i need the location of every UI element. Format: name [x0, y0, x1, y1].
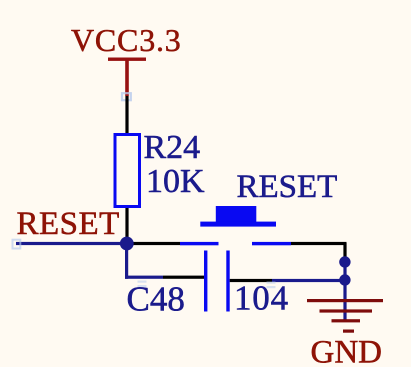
wire capacitor row right (navy part) — [272, 279, 345, 282]
wire from lower junction to ground — [343, 280, 346, 321]
svg-text:C48: C48 — [127, 280, 185, 319]
svg-text:104: 104 — [234, 279, 289, 318]
wire from power pin to resistor R24 — [125, 96, 128, 134]
wire capacitor row left (black part) — [163, 276, 204, 279]
svg-text:RESET: RESET — [17, 206, 120, 242]
switch S1 pin 1 — [180, 242, 219, 245]
svg-text:VCC3.3: VCC3.3 — [71, 22, 182, 58]
resistor R24 — [115, 135, 140, 207]
wire from junction to switch pin 1 — [126, 242, 180, 245]
svg-text:R24: R24 — [144, 129, 201, 166]
capacitor C48 plate 2 — [226, 251, 229, 312]
wire capacitor row left (navy part) — [125, 276, 163, 279]
svg-text:RESET: RESET — [237, 169, 338, 205]
ground symbol GND — [307, 299, 383, 333]
switch S1 pin 2 — [252, 242, 291, 245]
wire RESET net (left) — [16, 242, 127, 245]
junction dot upper — [339, 256, 350, 267]
junction dot lower — [339, 274, 350, 285]
wire from switch pin 2 to right corner — [291, 242, 347, 245]
junction at RESET node — [120, 237, 134, 251]
wire end marker — [13, 240, 21, 249]
switch S1 button bar — [200, 222, 276, 227]
power symbol VCC3.3 — [108, 58, 146, 97]
wire capacitor row right (black part) — [230, 279, 272, 282]
wire from resistor bottom to junction — [125, 208, 128, 243]
hotspot marker at C48 pin 1 — [138, 281, 147, 288]
svg-text:GND: GND — [311, 335, 383, 367]
wire from junction down to capacitor row — [125, 243, 128, 279]
hotspot marker at power pin end — [122, 93, 131, 100]
switch S1 button cap — [216, 206, 256, 224]
capacitor C48 plate 1 — [204, 251, 207, 312]
svg-text:10K: 10K — [146, 163, 205, 200]
hotspot marker at C48 pin 2 — [267, 282, 276, 289]
wire between junctions — [343, 262, 346, 280]
wire right vertical (black) — [343, 243, 346, 262]
